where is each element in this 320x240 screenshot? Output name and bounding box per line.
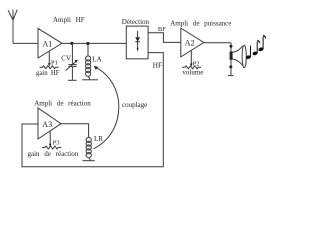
ground (speaker) [228, 75, 234, 77]
svg-text:Ampli de puissance: Ampli de puissance [170, 19, 231, 27]
svg-text:BF: BF [158, 26, 166, 33]
capacitor CV (variable) [61, 43, 78, 80]
op-amp A3 [38, 108, 61, 139]
wire A1 output to detection box [62, 42, 126, 44]
resistor P1 track [40, 66, 59, 69]
antenna [8, 10, 17, 44]
ground (LR) [82, 160, 94, 162]
svg-text:A3: A3 [42, 120, 52, 129]
wire HF feedback from detection [22, 53, 163, 167]
svg-text:P1: P1 [51, 59, 58, 66]
pot P2 wiper [190, 51, 200, 68]
svg-text:Détection: Détection [122, 18, 150, 26]
op-amp A1 [38, 28, 62, 58]
svg-text:Ampli de réaction: Ampli de réaction [34, 100, 91, 108]
wire A3 output to LR [61, 124, 89, 138]
svg-text:volume: volume [182, 68, 203, 76]
inductor LR [86, 135, 103, 161]
svg-text:couplage: couplage [122, 101, 147, 109]
pot P3 wiper [49, 131, 60, 147]
svg-text:A2: A2 [185, 39, 195, 48]
node LA junction [86, 42, 89, 45]
node CV junction [70, 42, 73, 45]
resistor P3 track [42, 146, 61, 149]
svg-text:P2: P2 [193, 60, 200, 67]
speaker LS1 [229, 43, 246, 76]
resistor P2 track [182, 66, 201, 69]
ground (LA) [82, 79, 98, 81]
svg-text:A1: A1 [43, 39, 53, 48]
svg-text:gain de réaction: gain de réaction [28, 150, 79, 158]
detection box [126, 26, 148, 59]
wire A2 output to speaker [204, 42, 231, 44]
op-amp A2 [181, 28, 204, 57]
svg-text:LR: LR [94, 135, 103, 143]
coupling arc [94, 66, 119, 149]
pot P1 wiper [48, 52, 58, 67]
ground (CV) [68, 79, 77, 81]
svg-text:LA: LA [92, 56, 101, 64]
svg-text:P3: P3 [53, 140, 60, 147]
wire antenna to A1 input [13, 42, 38, 44]
musical notes [245, 35, 266, 60]
svg-text:Ampli HF: Ampli HF [53, 16, 85, 24]
svg-text:HF: HF [153, 60, 163, 69]
inductor LA [86, 44, 102, 80]
diode D1 [135, 31, 140, 51]
wire BF detection to A2 [148, 33, 181, 43]
wire feedback input to A3 [22, 124, 38, 167]
svg-text:CV: CV [61, 54, 71, 62]
svg-text:gain HF: gain HF [36, 70, 60, 77]
